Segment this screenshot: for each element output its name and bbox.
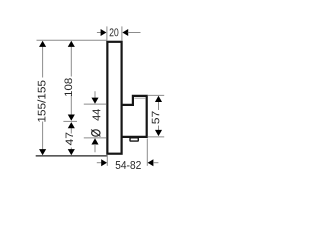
knob body: [122, 96, 147, 137]
dim o44 extension lines: [84, 103, 107, 105]
wire wall base line: [36, 155, 108, 157]
dim 20 extension lines: [106, 26, 108, 40]
label 20: [110, 28, 119, 36]
knob tab: [130, 138, 138, 141]
dim 57 extension lines: [148, 94, 165, 96]
dim o44 bottom arrow: [91, 138, 98, 144]
dim 155/155 line: [42, 44, 44, 78]
plate: [107, 42, 121, 154]
node axis tick: [63, 120, 77, 122]
dim 20 left arrow: [97, 32, 101, 34]
dim 54-82 right arrow: [148, 159, 154, 166]
dim 108 line: [70, 44, 72, 77]
knob step highlight: [134, 97, 145, 99]
label 155/155: [37, 81, 45, 122]
dim 54-82 left arrow: [97, 162, 102, 164]
dim 57 line: [158, 99, 160, 110]
label 108: [64, 78, 72, 96]
label 57: [152, 111, 160, 123]
label 47: [66, 133, 73, 146]
dim 20 right arrow: [122, 29, 128, 36]
dim 54-82 extension lines: [106, 155, 108, 166]
wire top extension line: [37, 39, 107, 41]
label o44: [92, 130, 100, 136]
label 54-82: [116, 161, 141, 169]
dim 47 line: [70, 126, 72, 134]
dim o44 top arrow: [94, 91, 96, 98]
